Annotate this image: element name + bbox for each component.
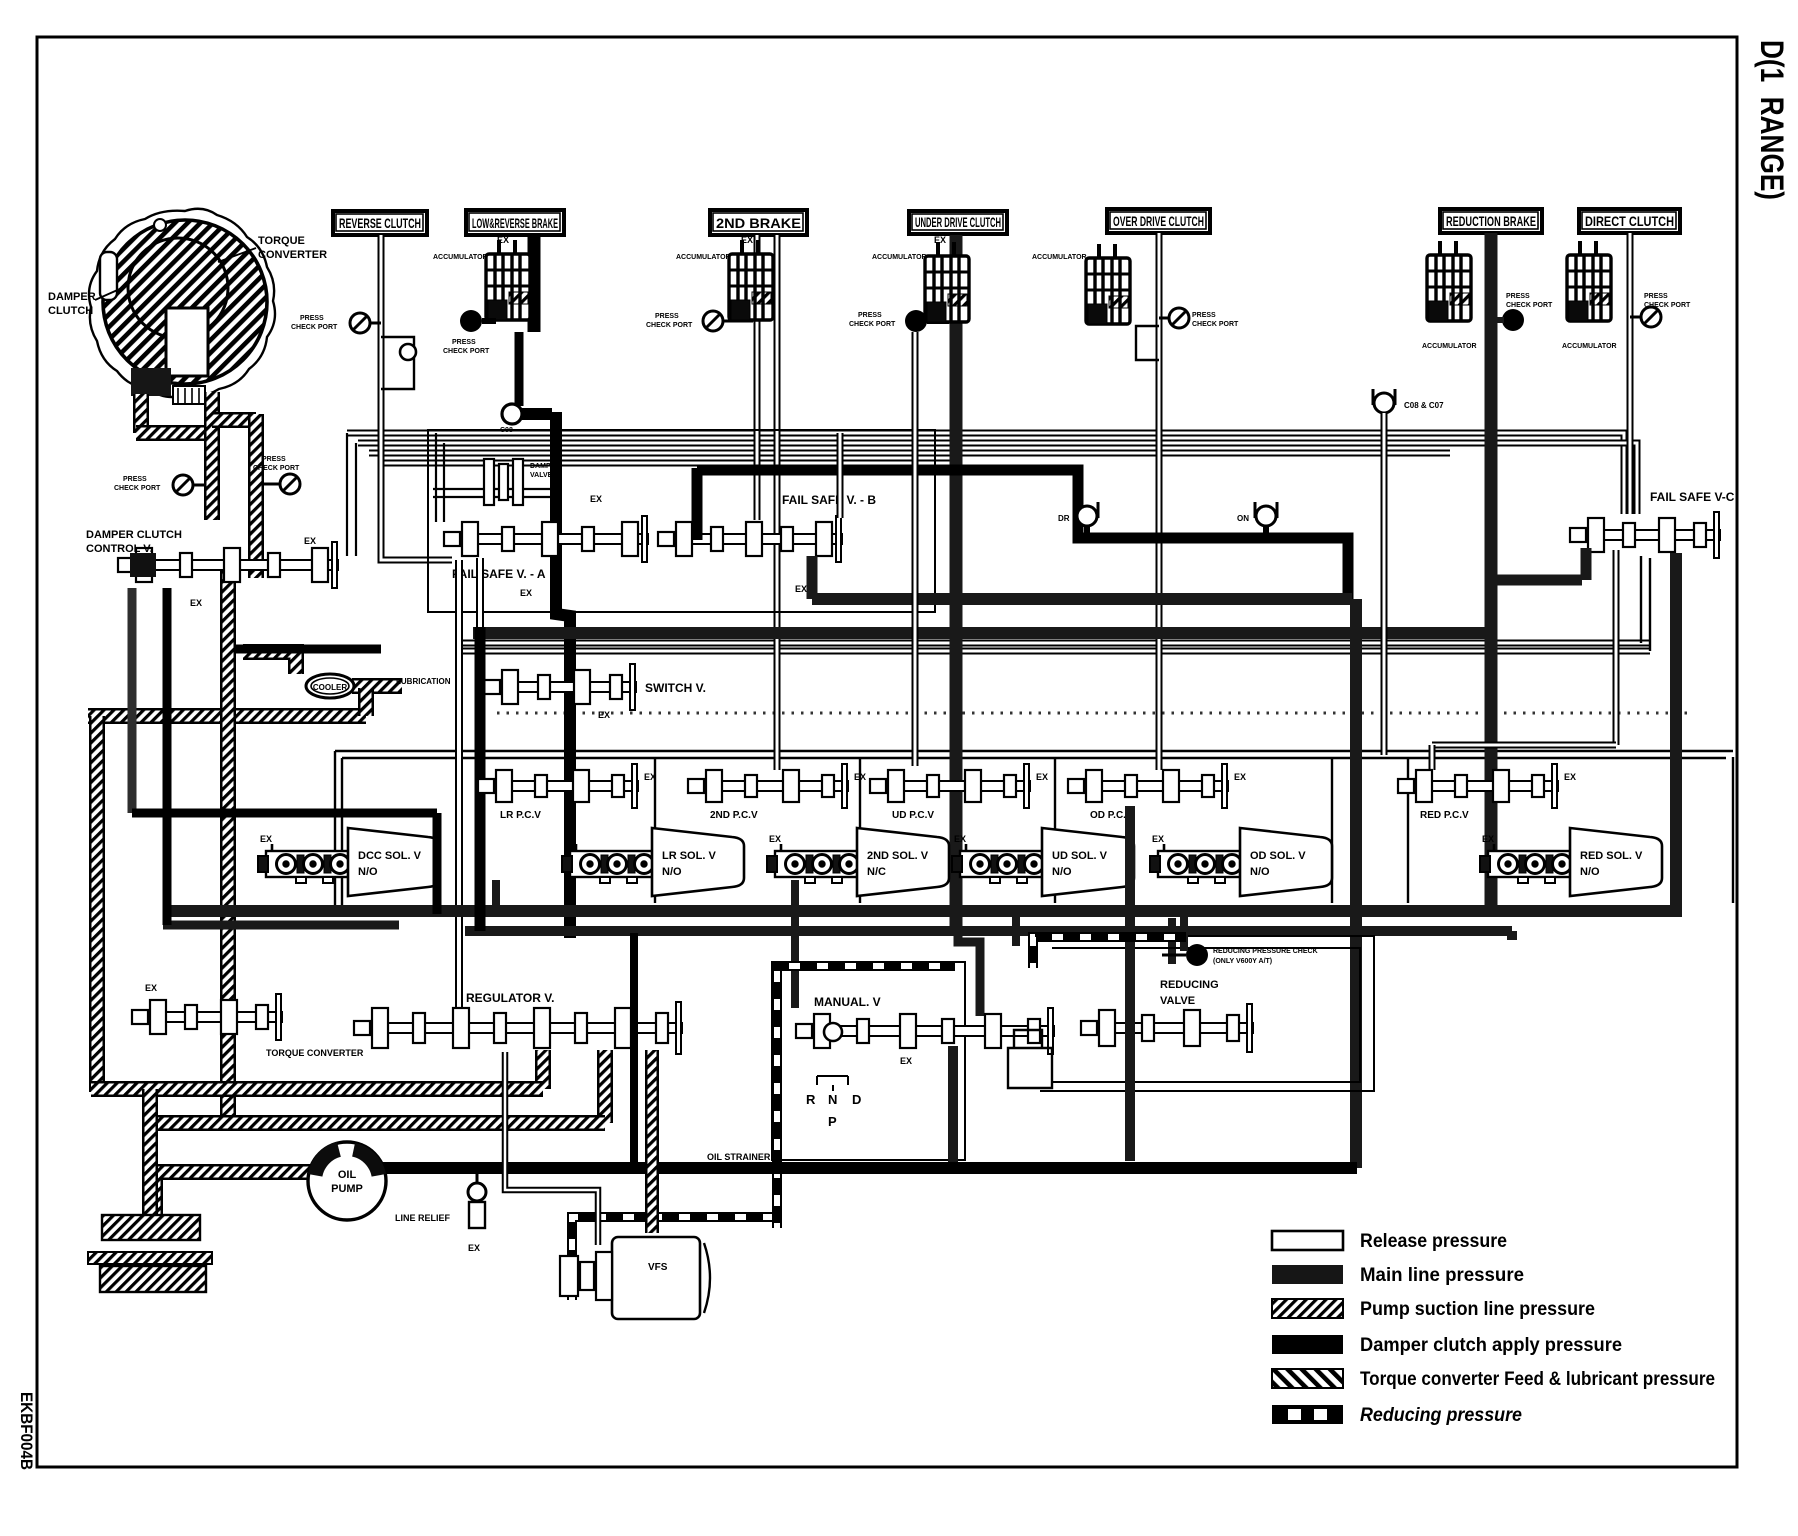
svg-text:LUBRICATION: LUBRICATION [396, 677, 451, 686]
svg-text:OD SOL. V: OD SOL. V [1250, 850, 1306, 862]
svg-text:CONVERTER: CONVERTER [258, 249, 327, 261]
svg-text:FAIL SAFE V-C: FAIL SAFE V-C [1650, 490, 1735, 504]
svg-text:N/O: N/O [662, 866, 682, 878]
vfs feed [505, 1052, 598, 1245]
label UNDER DRIVE CLUTCH [909, 211, 1007, 234]
press check port (low/reverse) [460, 310, 482, 332]
title D(1 RANGE) [1754, 40, 1790, 200]
oil pump [308, 1142, 386, 1220]
reducing line left loop [777, 966, 955, 1228]
svg-text:EX: EX [854, 772, 866, 782]
svg-text:REDUCING: REDUCING [1160, 979, 1219, 991]
2ND pressure control valve [688, 764, 848, 808]
2ND solenoid valve [767, 844, 861, 883]
accumulator (reduction) [1427, 241, 1471, 321]
legend damper clutch apply [1272, 1335, 1343, 1354]
accumulator (direct) [1567, 241, 1611, 321]
OD pressure control valve [1068, 764, 1228, 808]
vfs body [612, 1237, 700, 1319]
svg-text:TORQUE CONVERTER: TORQUE CONVERTER [266, 1048, 364, 1058]
UD pressure control valve [870, 764, 1030, 808]
release bundle line 3 [369, 450, 1450, 457]
reverse clutch orifice loop [381, 337, 414, 389]
oil strainer line [383, 1162, 1357, 1174]
regulator suction riser 1 [535, 1050, 551, 1089]
cooler oval [306, 674, 354, 698]
enclosure right edge [1732, 757, 1734, 903]
regulator drops [630, 933, 638, 1168]
svg-text:P: P [828, 1114, 837, 1129]
suction branch H7 [91, 1081, 543, 1097]
pan riser [142, 1089, 158, 1216]
svg-text:RED P.C.V: RED P.C.V [1420, 810, 1469, 821]
enclosure separator 2 [859, 757, 861, 903]
svg-text:N/O: N/O [358, 866, 378, 878]
fail safe B top riser [837, 433, 844, 518]
reducing line bottom [572, 1217, 779, 1300]
release bundle line 4 [380, 460, 955, 467]
over drive orifice loop [1136, 326, 1159, 360]
main line bottom header 1 [163, 905, 1682, 917]
svg-text:UNDER DRIVE CLUTCH: UNDER DRIVE CLUTCH [915, 214, 1001, 230]
main line mid header [812, 593, 1352, 605]
fail safe valve B [658, 516, 842, 562]
code EKBF004B [17, 1392, 36, 1470]
svg-text:EX: EX [741, 235, 753, 245]
LR solenoid valve [562, 844, 656, 883]
svg-text:OVER DRIVE CLUTCH: OVER DRIVE CLUTCH [1113, 213, 1204, 229]
svg-text:EX: EX [304, 536, 316, 546]
svg-text:TORQUE: TORQUE [258, 235, 305, 247]
torque converter left boss [100, 252, 117, 300]
cooler feed segment [236, 645, 381, 654]
svg-text:VALVE: VALVE [530, 472, 553, 479]
svg-text:PUMP: PUMP [331, 1183, 363, 1195]
cooler line [243, 652, 296, 674]
enclosure separator 4 [1331, 757, 1333, 903]
svg-text:PRESS: PRESS [1192, 312, 1216, 319]
svg-text:DAMPER CLUTCH: DAMPER CLUTCH [86, 529, 182, 541]
label LOW/REVERSE BRAKE [466, 210, 564, 235]
suction to pump [155, 1172, 312, 1216]
svg-text:PRESS: PRESS [123, 476, 147, 483]
svg-text:UD P.C.V: UD P.C.V [892, 810, 934, 821]
fail safe C main outlet [1670, 553, 1682, 908]
svg-text:(ONLY V600Y A/T): (ONLY V600Y A/T) [1213, 958, 1272, 965]
legend pump suction [1272, 1299, 1343, 1318]
damper clutch control valve [118, 542, 338, 588]
accumulator (2nd) [729, 240, 773, 320]
svg-text:REGULATOR V.: REGULATOR V. [466, 991, 554, 1005]
svg-text:REDUCING PRESSURE CHECK: REDUCING PRESSURE CHECK [1213, 948, 1318, 955]
svg-text:CHECK PORT: CHECK PORT [253, 465, 300, 472]
svg-text:D: D [852, 1092, 861, 1107]
svg-text:N: N [828, 1092, 837, 1107]
svg-text:CONTROL V.: CONTROL V. [86, 543, 153, 555]
enclosure separator 3 [1054, 757, 1056, 903]
enclosure left edge [334, 751, 336, 905]
svg-text:Damper clutch apply pressure: Damper clutch apply pressure [1360, 1335, 1622, 1356]
reverse clutch line [381, 235, 452, 560]
svg-text:2ND BRAKE: 2ND BRAKE [716, 215, 801, 231]
svg-text:EX: EX [590, 494, 602, 504]
low/reverse brake apply line [528, 235, 541, 332]
svg-text:REDUCTION BRAKE: REDUCTION BRAKE [1446, 213, 1536, 229]
svg-text:CHECK PORT: CHECK PORT [291, 324, 338, 331]
label DIRECT CLUTCH [1579, 209, 1680, 233]
svg-text:EX: EX [1152, 834, 1164, 844]
press check port (reduction) [1502, 309, 1524, 331]
DCC solenoid bell [348, 828, 440, 896]
enclosure top line [335, 750, 1733, 752]
label 2ND BRAKE [710, 210, 807, 235]
svg-text:SWITCH V.: SWITCH V. [645, 681, 706, 695]
svg-text:Torque converter Feed & lubric: Torque converter Feed & lubricant pressu… [1360, 1369, 1715, 1390]
accumulator (low/reverse) [486, 240, 530, 320]
svg-text:LINE RELIEF: LINE RELIEF [395, 1213, 451, 1223]
svg-text:Pump suction line pressure: Pump suction line pressure [1360, 1299, 1595, 1320]
svg-text:R: R [806, 1092, 816, 1107]
dcc apply line [163, 588, 172, 925]
fail safe valve A [444, 516, 648, 562]
svg-text:EX: EX [934, 235, 946, 245]
manual valve detent box [1008, 1048, 1052, 1088]
oil pan lower [88, 1252, 212, 1264]
release bundle line 1 [347, 433, 1624, 514]
svg-text:EX: EX [1036, 772, 1048, 782]
reducing valve box [1040, 936, 1374, 1091]
svg-text:LOW&REVERSE BRAKE: LOW&REVERSE BRAKE [472, 215, 558, 231]
fail safe A outlet drop [455, 560, 463, 1008]
release mid line 2 [455, 648, 1650, 655]
torque converter hatched body [89, 209, 275, 397]
svg-text:CHECK PORT: CHECK PORT [1192, 321, 1239, 328]
OD solenoid bell [1240, 828, 1332, 896]
lr sol drop [492, 880, 500, 908]
svg-text:N/O: N/O [1580, 866, 1600, 878]
check feed drop [1180, 911, 1188, 951]
svg-text:Release pressure: Release pressure [1360, 1231, 1507, 1252]
RED solenoid valve [1480, 844, 1574, 883]
press check port (dcc 1) [173, 475, 193, 495]
vfs suction line [645, 1050, 659, 1233]
check stub [1168, 918, 1176, 964]
svg-text:EX: EX [1234, 772, 1246, 782]
ball check ON [1255, 502, 1277, 526]
svg-text:Main line pressure: Main line pressure [1360, 1265, 1524, 1286]
oil pan upper [102, 1215, 200, 1240]
damper valve [484, 459, 523, 505]
svg-text:EX: EX [900, 1056, 912, 1066]
RED solenoid bell [1570, 828, 1662, 896]
svg-text:2ND P.C.V: 2ND P.C.V [710, 810, 758, 821]
tc feed pipe left [133, 394, 149, 433]
svg-text:UD SOL. V: UD SOL. V [1052, 850, 1108, 862]
reducing line to valve [1033, 937, 1186, 968]
svg-text:DR: DR [1058, 514, 1070, 523]
svg-text:EX: EX [260, 834, 272, 844]
svg-text:REVERSE CLUTCH: REVERSE CLUTCH [339, 215, 421, 231]
reducing valve feed [1125, 806, 1135, 1161]
fail safe B feed down [692, 468, 703, 540]
svg-text:Reducing pressure: Reducing pressure [1360, 1405, 1522, 1426]
press check port (over drive) [1169, 308, 1189, 328]
svg-text:EX: EX [769, 834, 781, 844]
line relief valve [468, 1183, 486, 1201]
suction branch H8 [150, 1115, 605, 1131]
svg-text:ACCUMULATOR: ACCUMULATOR [433, 254, 488, 261]
svg-text:PRESS: PRESS [1506, 293, 1530, 300]
OD solenoid valve [1150, 844, 1244, 883]
svg-text:DIRECT CLUTCH: DIRECT CLUTCH [1585, 213, 1674, 229]
svg-text:PRESS: PRESS [655, 313, 679, 320]
UD solenoid valve [952, 844, 1046, 883]
tc feed pipe right [248, 414, 264, 578]
svg-text:EX: EX [1564, 772, 1576, 782]
cooler outlet [352, 678, 402, 694]
LR solenoid bell [652, 828, 744, 896]
svg-text:EX: EX [598, 710, 610, 720]
torque converter hub [131, 368, 171, 396]
mid bundle to fail safe C [1640, 556, 1642, 643]
low/reverse to fail safe line [522, 408, 552, 420]
main line bottom header 2 [465, 926, 1512, 936]
svg-text:EX: EX [520, 588, 532, 598]
2nd brake pcv line [774, 235, 781, 770]
accumulator (over drive) [1086, 244, 1130, 324]
2nd brake line [754, 235, 761, 520]
svg-text:CHECK PORT: CHECK PORT [849, 321, 896, 328]
svg-text:CHECK PORT: CHECK PORT [1506, 302, 1553, 309]
damper apply header [697, 470, 1348, 599]
svg-text:N/O: N/O [1052, 866, 1072, 878]
svg-text:EX: EX [497, 235, 509, 245]
damper box inner drops [435, 433, 437, 522]
svg-text:ACCUMULATOR: ACCUMULATOR [1032, 254, 1087, 261]
label REDUCTION BRAKE [1440, 209, 1542, 233]
svg-text:FAIL SAFE V. - A: FAIL SAFE V. - A [452, 567, 546, 581]
over drive line [1156, 233, 1163, 770]
reduction riser to strainer [1350, 599, 1362, 1168]
manual valve feed [948, 1046, 958, 1168]
reducing pressure check [1186, 944, 1208, 966]
regulator suction riser 2 [597, 1050, 613, 1123]
reducing valve [1081, 1004, 1253, 1052]
suction header [88, 708, 366, 724]
under drive main line [950, 235, 963, 931]
legend main line pressure [1272, 1265, 1343, 1284]
torque converter turbine window [166, 308, 208, 376]
svg-text:CHECK PORT: CHECK PORT [443, 348, 490, 355]
LR pressure control valve [478, 764, 638, 808]
fail safe C feed [1491, 575, 1582, 586]
press check port (dcc 2) [280, 474, 300, 494]
direct clutch line [1627, 233, 1634, 514]
svg-text:EKBF004B: EKBF004B [17, 1392, 36, 1470]
regulator valve [354, 1002, 682, 1054]
accumulator (under drive) [925, 242, 969, 322]
svg-text:MANUAL. V: MANUAL. V [814, 995, 881, 1009]
fail safe C outlet [1613, 550, 1620, 745]
svg-text:VFS: VFS [648, 1262, 668, 1273]
svg-text:ACCUMULATOR: ACCUMULATOR [1422, 343, 1477, 350]
legend release pressure [1272, 1231, 1343, 1250]
fail safe valve C [1570, 512, 1720, 558]
svg-text:RED SOL. V: RED SOL. V [1580, 850, 1643, 862]
ud accumulator drop [912, 332, 919, 766]
press check port (under drive) [905, 310, 927, 332]
manual valve left feed [791, 880, 799, 1008]
legend tc feed [1272, 1369, 1343, 1388]
svg-text:N/C: N/C [867, 866, 886, 878]
svg-text:ACCUMULATOR: ACCUMULATOR [676, 254, 731, 261]
press check port (2nd) [703, 311, 723, 331]
svg-text:C08 & C07: C08 & C07 [1404, 401, 1444, 410]
DCC solenoid valve [258, 844, 352, 883]
svg-text:PRESS: PRESS [262, 456, 286, 463]
enclosure separator 1 [654, 757, 656, 903]
svg-text:OIL STRAINER: OIL STRAINER [707, 1152, 771, 1162]
ud to manual jog [958, 931, 980, 1016]
svg-text:EX: EX [145, 983, 157, 993]
label OVER DRIVE CLUTCH [1107, 209, 1210, 233]
svg-text:EX: EX [564, 834, 576, 844]
svg-text:LR P.C.V: LR P.C.V [500, 810, 541, 821]
press check port (reverse) [350, 313, 370, 333]
ball check DR [1076, 502, 1098, 526]
svg-text:CHECK PORT: CHECK PORT [114, 485, 161, 492]
reduction brake main line [1485, 233, 1498, 908]
enclosure separator 5 [1407, 757, 1409, 903]
svg-text:LR SOL. V: LR SOL. V [662, 850, 716, 862]
svg-text:VALVE: VALVE [1160, 995, 1195, 1007]
release bundle line 2 [358, 443, 1637, 514]
svg-text:ACCUMULATOR: ACCUMULATOR [1562, 343, 1617, 350]
press check port (direct) [1641, 307, 1661, 327]
svg-text:DCC SOL. V: DCC SOL. V [358, 850, 422, 862]
svg-text:PRESS: PRESS [1644, 293, 1668, 300]
suction left riser [89, 716, 105, 1092]
torque converter control valve [132, 994, 282, 1040]
damper area box [428, 430, 935, 612]
svg-text:PRESS: PRESS [452, 339, 476, 346]
manual valve [796, 1008, 1054, 1054]
svg-text:EX: EX [1482, 834, 1494, 844]
svg-text:DAMPER: DAMPER [530, 463, 560, 470]
junction ball C08 [502, 404, 522, 424]
svg-text:PRESS: PRESS [300, 315, 324, 322]
shift letters RNDP [817, 1076, 848, 1091]
svg-text:EX: EX [468, 1243, 480, 1253]
svg-text:CHECK PORT: CHECK PORT [1644, 302, 1691, 309]
svg-text:EX: EX [644, 772, 656, 782]
svg-text:ACCUMULATOR: ACCUMULATOR [872, 254, 927, 261]
2ND solenoid bell [857, 828, 949, 896]
dcc release drop [128, 588, 137, 813]
svg-text:FAIL SAFE V. - B: FAIL SAFE V. - B [782, 493, 876, 507]
svg-text:OIL: OIL [338, 1169, 357, 1181]
legend reducing pressure [1272, 1405, 1343, 1424]
dotted line [497, 712, 1688, 715]
LR pcv feed drop [476, 558, 484, 627]
svg-text:ON: ON [1237, 514, 1249, 523]
svg-text:DAMPER: DAMPER [48, 291, 96, 303]
tc feed staircase [204, 392, 220, 520]
svg-text:EX: EX [190, 598, 202, 608]
svg-text:COOLER: COOLER [313, 683, 347, 692]
svg-text:CHECK PORT: CHECK PORT [646, 322, 693, 329]
main line drop right [1507, 931, 1517, 940]
release mid line 1 [455, 640, 1650, 647]
svg-text:N/O: N/O [1250, 866, 1270, 878]
svg-text:D(1 RANGE): D(1 RANGE) [1754, 40, 1790, 200]
manual valve box [772, 962, 965, 1160]
RED pressure control valve [1398, 764, 1558, 808]
svg-text:2ND SOL. V: 2ND SOL. V [867, 850, 929, 862]
C-ball check [1373, 389, 1395, 413]
label REVERSE CLUTCH [333, 211, 427, 235]
dcc to regulator pipe [220, 560, 236, 1123]
switch valve [484, 664, 636, 710]
main line long header [473, 627, 1497, 639]
svg-text:PRESS: PRESS [858, 312, 882, 319]
svg-text:EX: EX [795, 584, 807, 594]
bundle left drops [346, 433, 348, 556]
UD solenoid bell [1042, 828, 1134, 896]
svg-text:EX: EX [954, 834, 966, 844]
svg-text:CLUTCH: CLUTCH [48, 305, 93, 317]
